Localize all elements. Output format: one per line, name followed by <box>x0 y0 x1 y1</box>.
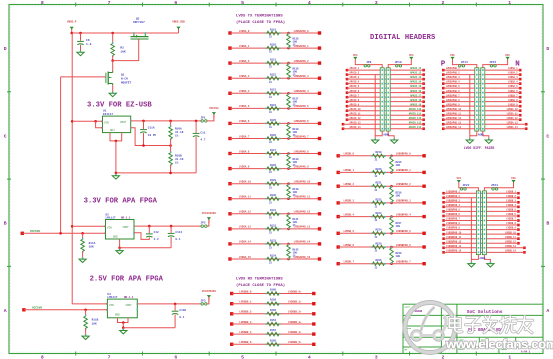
resistor R237 differential 100 <box>390 216 394 234</box>
svg-text:C: C <box>4 133 7 139</box>
svg-text:ADJ: ADJ <box>110 129 115 132</box>
svg-text:VCC3V3APA: VCC3V3APA <box>202 212 216 215</box>
IC U2 regulator LM1117-3.3 <box>104 220 135 240</box>
wire RX termination row 2 <box>232 313 314 315</box>
svg-text:LVDSAPAD_3: LVDSAPAD_3 <box>294 75 310 78</box>
svg-text:C11: C11 <box>200 132 205 135</box>
pad LVDSB_5 right <box>517 210 520 213</box>
pad APAIO_13 right <box>422 78 425 81</box>
resistor R119 series <box>266 31 281 35</box>
svg-text:LVDSB_3: LVDSB_3 <box>344 200 355 203</box>
svg-text:2.2: 2.2 <box>154 238 159 241</box>
pad APAIO_112 right <box>422 118 425 121</box>
IC U3 regulator LM1117-2.5 <box>106 299 138 318</box>
wire JP15 ground <box>483 131 489 137</box>
svg-text:LVDSA_8: LVDSA_8 <box>239 150 250 153</box>
svg-text:LVDSBPAD_13: LVDSBPAD_13 <box>446 245 462 248</box>
IC U1 regulator EZ1117 <box>101 116 132 133</box>
pad LVDSAPAD_5 right <box>318 107 321 110</box>
svg-text:(PLACE CLOSE TO FPGA): (PLACE CLOSE TO FPGA) <box>236 283 285 288</box>
tick left <box>7 178 11 180</box>
pad LVDSAPAD_5 left <box>442 87 445 90</box>
svg-text:LVDSA_11: LVDSA_11 <box>507 112 519 115</box>
wire termination row A0 <box>230 32 320 34</box>
pad LVDSAPAD_11 right <box>318 197 321 200</box>
svg-text:LVDSAPAD_12: LVDSAPAD_12 <box>294 211 311 214</box>
resistor R137 differential 100 <box>287 93 291 109</box>
svg-text:LVDSAPAD_8: LVDSAPAD_8 <box>294 150 310 153</box>
wire vertical rail A <box>60 77 62 233</box>
junction rail A end <box>59 232 62 235</box>
junction row A9 <box>287 167 290 170</box>
wire JP15 pin 1 <box>485 69 520 71</box>
svg-text:LVDSB_8: LVDSB_8 <box>506 222 516 225</box>
pad LVDSAPAD_10 right <box>318 182 321 185</box>
svg-text:1%: 1% <box>293 224 297 227</box>
label C6 value <box>86 39 92 46</box>
svg-text:VCC: VCC <box>409 54 414 57</box>
wire JP24 pin 5 <box>486 210 518 212</box>
wire JP24 pin 12 <box>486 242 518 244</box>
svg-text:R221: R221 <box>375 182 382 185</box>
pad LVDSB_7 right <box>517 219 520 222</box>
wire VBUS_USB riser <box>178 28 180 33</box>
wire C11 top lead <box>195 121 197 133</box>
label R136 <box>293 67 300 76</box>
wire power to JP24 pin1 <box>484 186 513 191</box>
svg-text:JP2: JP2 <box>201 222 206 225</box>
junction VBUS flag <box>70 32 73 35</box>
label R236 <box>396 191 403 197</box>
wire JP14 pin 11 <box>443 114 475 116</box>
svg-text:GND: GND <box>113 236 118 239</box>
svg-text:VBUS_USB: VBUS_USB <box>172 21 185 24</box>
resistor R220 series <box>371 171 386 175</box>
junction row B2 <box>390 185 393 188</box>
wire termination row A4 <box>230 92 320 94</box>
ground U3 <box>120 328 127 334</box>
wire RX termination row 1 <box>232 303 314 305</box>
pad APAIO_10 left <box>346 109 349 112</box>
resistor R140 differential 100 <box>287 183 291 199</box>
svg-text:LVDSBPAD_8: LVDSBPAD_8 <box>446 222 460 225</box>
svg-text:LVDSB_10: LVDSB_10 <box>505 231 517 234</box>
svg-text:100: 100 <box>396 225 401 228</box>
svg-text:APAIO_110: APAIO_110 <box>409 108 422 111</box>
wire JP24 pin 8 <box>486 224 518 226</box>
svg-text:LVDSAPAD_5: LVDSAPAD_5 <box>294 105 310 108</box>
svg-text:1%: 1% <box>293 73 297 76</box>
svg-text:LVDSA_4: LVDSA_4 <box>508 81 518 84</box>
svg-text:LVDSAPAD_10: LVDSAPAD_10 <box>294 181 311 184</box>
svg-text:LVDSB_14: LVDSB_14 <box>505 249 517 252</box>
pad LVDSAPAD_13 right <box>318 227 321 230</box>
svg-text:LVDSBPAD_12: LVDSBPAD_12 <box>446 240 462 243</box>
svg-text:LVDSAPAD_13: LVDSAPAD_13 <box>294 226 311 229</box>
svg-text:LM1117: LM1117 <box>107 296 117 299</box>
svg-text:1%: 1% <box>293 43 297 46</box>
pad APAIO_110 right <box>422 109 425 112</box>
wire JP15 pin 9 <box>485 105 520 107</box>
wire JP14 pin 9 <box>443 105 475 107</box>
wire JP24 pin 4 <box>486 206 518 208</box>
svg-text:APAIO_3: APAIO_3 <box>350 76 360 79</box>
wire JP24 pin 1 <box>486 192 518 194</box>
wire JP15 pin 3 <box>485 78 520 80</box>
wire JP14 pin 3 <box>443 78 475 80</box>
pad LVDSBPAD_6 left <box>442 215 445 218</box>
capacitor C11 <box>193 133 200 136</box>
junction row A15 <box>287 258 290 261</box>
wire JP15 pin 8 <box>485 101 520 103</box>
svg-text:8: 8 <box>41 0 44 6</box>
pad LVDSAPAD_11 left <box>442 114 445 117</box>
svg-text:AGND: AGND <box>480 257 486 260</box>
svg-text:LVDSBPAD_10: LVDSBPAD_10 <box>446 231 462 234</box>
tick bottom <box>342 352 344 356</box>
junction row A8 <box>287 152 290 155</box>
wire termination row A8 <box>230 153 320 155</box>
connector JP15 strip <box>481 68 485 131</box>
resistor R156 RX termination <box>266 312 281 316</box>
svg-text:LVDSB_6: LVDSB_6 <box>506 213 516 216</box>
pad LVDSA_14 left <box>228 242 231 245</box>
svg-text:LVDSB_9: LVDSB_9 <box>506 227 516 230</box>
svg-text:LVDSAPAD_8: LVDSAPAD_8 <box>446 99 460 102</box>
watermark text dianzifashaoyou <box>449 316 532 333</box>
svg-text:R226: R226 <box>375 259 382 262</box>
wire to VCC3V3APA flag <box>207 219 209 226</box>
svg-text:LVDSB8_1+: LVDSB8_1+ <box>288 301 302 304</box>
pad LVDSAPAD_10 left <box>442 109 445 112</box>
junction C11D tap <box>174 303 177 306</box>
pad LVDSB_5 left <box>337 232 340 235</box>
svg-text:R224: R224 <box>375 229 382 232</box>
svg-text:8: 8 <box>41 355 44 359</box>
wire C11A top lead <box>143 121 145 129</box>
wire JP14 pin 7 <box>443 96 475 98</box>
junction R10A tap <box>169 120 172 123</box>
svg-text:10K: 10K <box>120 51 126 54</box>
transistor Q1 N-MOSFET <box>105 71 113 85</box>
svg-text:6: 6 <box>174 0 177 6</box>
svg-text:3: 3 <box>375 0 378 6</box>
svg-text:LVDSB_7: LVDSB_7 <box>344 261 355 264</box>
svg-text:LVDSAPAD_12: LVDSAPAD_12 <box>446 117 462 120</box>
pad LVDSB8_5 left <box>230 343 233 346</box>
label R139 <box>293 158 300 167</box>
pad LVDSBPAD_13 left <box>442 247 445 250</box>
wire power to JP14 pin1 <box>453 63 477 68</box>
svg-text:0.1: 0.1 <box>175 238 180 241</box>
svg-text:LVDSB_5: LVDSB_5 <box>344 230 355 233</box>
wire JP23 pin 10 <box>444 233 477 235</box>
svg-text:LVDSA_4: LVDSA_4 <box>239 90 250 93</box>
connector JP9 strip <box>380 68 386 131</box>
wire JP15 pin 4 <box>485 83 520 85</box>
jumper JP3 <box>201 303 207 305</box>
svg-text:1%: 1% <box>293 134 297 137</box>
wire termination row A7 <box>230 138 320 140</box>
wire termination row B3 <box>338 202 424 204</box>
resistor R124 series <box>266 107 281 111</box>
ground JP10 <box>391 137 398 143</box>
svg-text:LVDSAPAD_4: LVDSAPAD_4 <box>446 81 460 84</box>
pad LVDSB8_0 right <box>312 292 315 295</box>
capacitor C12 <box>146 234 153 237</box>
svg-text:LVDSB_0: LVDSB_0 <box>344 153 355 156</box>
svg-text:LVDSA_2: LVDSA_2 <box>508 72 518 75</box>
svg-text:LVDSAPAD_10: LVDSAPAD_10 <box>446 108 462 111</box>
jumper G1 left <box>364 65 370 67</box>
svg-text:LVDSAPAD_2: LVDSAPAD_2 <box>446 72 460 75</box>
wire JP23 pin 7 <box>444 220 477 222</box>
pad LVDSB8_2 right <box>312 312 315 315</box>
svg-text:1.0: 1.0 <box>86 43 92 46</box>
svg-text:1%: 1% <box>293 254 297 257</box>
svg-text:DIGITAL HEADERS: DIGITAL HEADERS <box>370 34 436 42</box>
svg-text:LVDSA_11: LVDSA_11 <box>239 196 252 199</box>
pad LVDSBPAD_4 left <box>442 206 445 209</box>
svg-text:LVDSB8_5-: LVDSB8_5- <box>239 341 253 344</box>
junction U2 upper input tap <box>71 225 74 228</box>
tick left <box>7 91 11 93</box>
junction C11A bottom <box>142 144 145 147</box>
power flag symbol G1 left <box>353 57 357 63</box>
junction row B4 <box>390 215 393 218</box>
resistor R121 series <box>266 61 281 65</box>
label R238 <box>396 252 403 258</box>
pad LVDSA_1 right <box>519 69 522 72</box>
ground below Q1 <box>109 91 116 97</box>
svg-text:APAIO_111: APAIO_111 <box>409 112 422 115</box>
resistor R142 differential 100 <box>287 244 291 260</box>
power flag symbol VBUS_USB <box>176 27 180 33</box>
wire JP10 pin 5 <box>390 87 423 89</box>
svg-text:LVDSB_1: LVDSB_1 <box>344 169 355 172</box>
pad LVDSBPAD_14 left <box>442 251 445 254</box>
svg-text:LVDSA_2: LVDSA_2 <box>239 60 250 63</box>
wire JP14 pin 14 <box>443 128 475 130</box>
svg-text:LVDSAPAD_6: LVDSAPAD_6 <box>294 120 310 123</box>
junction U1 input tap <box>71 120 74 123</box>
pad LVDSA_4 right <box>519 82 522 85</box>
wire JP9 pin 4 <box>347 83 380 85</box>
wire JP10 pin 12 <box>390 119 423 121</box>
svg-text:NR-1.1: NR-1.1 <box>121 217 131 220</box>
wire JP14 pin 2 <box>443 74 475 76</box>
wire power to JP23 pin1 <box>459 186 479 191</box>
wire U1 bottom pins <box>110 133 122 141</box>
label R10A <box>175 128 184 138</box>
label U3 <box>107 293 133 299</box>
svg-text:LVDSAPAD_2: LVDSAPAD_2 <box>294 60 310 63</box>
wire R10B bottom lead <box>170 165 172 173</box>
wire JP23 pin 9 <box>444 229 477 231</box>
svg-text:APAIO_19: APAIO_19 <box>410 103 422 106</box>
wire G1 ground bus <box>374 75 376 136</box>
svg-text:LVDS RX TERMINATIONS: LVDS RX TERMINATIONS <box>236 278 283 282</box>
pad LVDSB_12 right <box>517 242 520 245</box>
wire R11B top lead <box>85 310 87 316</box>
pad LVDSB_6 left <box>337 245 340 248</box>
label R11A <box>89 242 96 249</box>
pad LVDSAPAD_3 right <box>318 77 321 80</box>
wire JP9 pin 14 <box>343 128 380 130</box>
svg-text:LVDSA_13: LVDSA_13 <box>507 121 519 124</box>
svg-text:4: 4 <box>308 355 311 359</box>
wire ground rail U1 <box>116 172 196 174</box>
svg-text:R223: R223 <box>375 212 382 215</box>
tick top <box>409 3 411 7</box>
label R140 <box>293 188 300 197</box>
tick left <box>7 265 11 267</box>
svg-text:LVDSBPAD_0: LVDSBPAD_0 <box>396 153 412 156</box>
svg-text:R220: R220 <box>375 168 382 171</box>
ground JP23 <box>468 261 475 267</box>
svg-text:VIN: VIN <box>104 121 109 124</box>
svg-text:LVDSAPAD_3: LVDSAPAD_3 <box>446 76 460 79</box>
label Q1 <box>121 74 131 85</box>
wire termination row A13 <box>230 228 320 230</box>
pad APAIO_4 left <box>346 82 349 85</box>
wire U3 bottom pins <box>118 318 129 323</box>
wire G2 ground bus <box>469 75 471 136</box>
svg-text:R158: R158 <box>270 299 277 302</box>
pad VCC5V0 input <box>21 232 24 235</box>
svg-text:LVDSA_10: LVDSA_10 <box>239 181 252 184</box>
junction row A14 <box>287 243 290 246</box>
pad APAIO_17 right <box>422 96 425 99</box>
svg-text:C12: C12 <box>154 231 159 234</box>
resistor R236 differential 100 <box>390 186 394 204</box>
svg-text:4.7: 4.7 <box>200 139 205 142</box>
wire C11D bottom lead <box>174 315 176 328</box>
resistor R131 series <box>266 212 281 216</box>
pad LVDSA_14 right <box>525 127 528 130</box>
wire JP23 pin 13 <box>444 247 477 249</box>
jumper G2 left <box>459 65 465 67</box>
tick bottom <box>275 352 277 356</box>
svg-text:APAIO_10: APAIO_10 <box>350 108 362 111</box>
svg-text:R222: R222 <box>375 198 382 201</box>
svg-text:3: 3 <box>375 355 378 359</box>
wire R2 bottom lead <box>112 56 114 61</box>
junction row B1 <box>390 171 393 174</box>
connector JP23 strip <box>476 191 482 255</box>
junction R2 bottom / Q1 drain / Q2 gate <box>111 59 114 62</box>
wire JP9 pin 8 <box>347 101 380 103</box>
wire C12 top lead <box>148 226 150 233</box>
svg-text:EZ1117: EZ1117 <box>103 113 113 116</box>
junction row A2 <box>287 62 290 65</box>
capacitor C11D <box>172 311 179 314</box>
resistor R158 RX termination <box>266 302 281 306</box>
svg-text:LVDS TX TERMINATIONS: LVDS TX TERMINATIONS <box>236 15 283 19</box>
svg-text:100: 100 <box>396 194 401 197</box>
svg-text:LVDSBPAD_3: LVDSBPAD_3 <box>396 200 412 203</box>
tick bottom <box>75 352 77 356</box>
wire JP10 pin 9 <box>390 105 423 107</box>
pad LVDSAPAD_7 right <box>318 137 321 140</box>
power flag symbol VCC3V3 <box>212 112 216 118</box>
svg-text:R133: R133 <box>270 239 277 242</box>
pad LVDSAPAD_12 left <box>442 118 445 121</box>
svg-text:JP3: JP3 <box>201 299 206 302</box>
svg-text:LVDSAPAD_15: LVDSAPAD_15 <box>294 256 311 259</box>
svg-text:LVDSA_5: LVDSA_5 <box>239 105 250 108</box>
wire JP23 pin 6 <box>444 215 477 217</box>
junction C12 tap <box>148 225 151 228</box>
resistor R141 differential 100 <box>287 213 291 229</box>
pad APAIO_16 right <box>422 91 425 94</box>
pad LVDSBPAD_8 left <box>442 224 445 227</box>
svg-text:LVDSB_2: LVDSB_2 <box>344 183 355 186</box>
pad APAIO_15 right <box>422 87 425 90</box>
tick top <box>342 3 344 7</box>
svg-text:AGND: AGND <box>478 133 484 136</box>
svg-text:LVDSB_5: LVDSB_5 <box>506 209 516 212</box>
label R2 value <box>120 47 126 54</box>
pad LVDSB_7 left <box>337 262 340 265</box>
svg-text:MOSFET: MOSFET <box>121 82 131 85</box>
svg-text:R134: R134 <box>270 254 277 257</box>
svg-text:R2: R2 <box>120 47 124 50</box>
pad LVDSA_12 left <box>228 212 231 215</box>
wire JP10 pin 6 <box>390 92 423 94</box>
pad APAIO_8 left <box>346 100 349 103</box>
svg-text:VOUT: VOUT <box>123 226 130 229</box>
wire C13 bottom lead <box>170 237 172 248</box>
wire JP15 pin 5 <box>485 87 520 89</box>
svg-text:1%: 1% <box>293 194 297 197</box>
wire termination row B0 <box>338 155 424 157</box>
wire U2 output rail <box>134 225 201 227</box>
wire C6 bottom lead <box>80 45 82 50</box>
resistor R223 series <box>371 215 386 219</box>
label C12 <box>154 231 159 241</box>
pad APAIO_14 right <box>422 82 425 85</box>
wire JP24 ground <box>484 255 490 261</box>
pad LVDSBPAD_5 left <box>442 210 445 213</box>
svg-text:LVDSA_7: LVDSA_7 <box>508 94 518 97</box>
title block labels <box>405 305 508 351</box>
resistor R125 series <box>266 122 281 126</box>
wire JP23 pin 11 <box>444 238 477 240</box>
svg-text:APAIO_114: APAIO_114 <box>409 126 422 129</box>
wire ADJ feedback <box>131 128 171 146</box>
capacitor C6 <box>77 41 84 44</box>
pad APAIO_14 left <box>342 127 345 130</box>
svg-text:APAIO_5: APAIO_5 <box>350 85 360 88</box>
pad LVDSB_6 right <box>517 215 520 218</box>
svg-text:C6: C6 <box>86 39 90 42</box>
svg-text:DATE: DATE <box>405 305 411 308</box>
wire termination row A2 <box>230 62 320 64</box>
pad LVDSBPAD_2 left <box>442 196 445 199</box>
svg-text:JP23: JP23 <box>462 184 469 187</box>
pad APAIO_1 left <box>346 69 349 72</box>
ground below C6 <box>77 50 84 56</box>
pad LVDSBPAD_4 right <box>422 215 425 218</box>
svg-text:R130: R130 <box>270 194 277 197</box>
resistor R238 differential 100 <box>390 247 394 265</box>
tick top <box>141 3 143 7</box>
tick bottom <box>409 352 411 356</box>
wire RX termination row 5 <box>232 343 314 345</box>
wire JP9 pin 6 <box>347 92 380 94</box>
svg-text:LVDSA_8: LVDSA_8 <box>508 99 518 102</box>
